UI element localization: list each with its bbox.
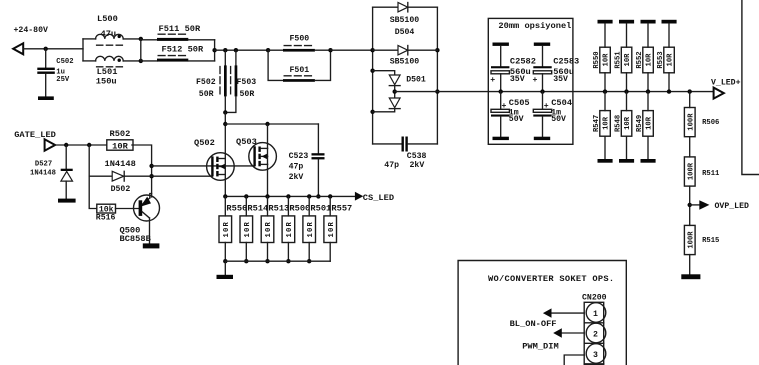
- svg-text:F511 50R: F511 50R: [159, 24, 201, 34]
- wire to Q502 gate: [152, 175, 213, 177]
- svg-text:D527: D527: [35, 161, 52, 169]
- wire output bus V_LED: [395, 91, 714, 93]
- svg-text:R549: R549: [636, 115, 644, 132]
- node zener midpoint: [393, 89, 397, 93]
- wire OVP stub: [690, 204, 700, 206]
- svg-text:BL_ON-OFF: BL_ON-OFF: [510, 319, 557, 329]
- capacitor C2583 560u 35V: [533, 66, 551, 68]
- svg-text:OVP_LED: OVP_LED: [715, 202, 749, 211]
- node clamp right output: [435, 89, 439, 93]
- svg-text:R550: R550: [593, 51, 601, 68]
- wire choke left vertical: [82, 39, 84, 61]
- svg-text:R556: R556: [226, 203, 247, 213]
- terminal bar cap column 1 top: [493, 43, 509, 46]
- svg-text:R552: R552: [636, 51, 644, 68]
- node clamp left zener bottom: [370, 110, 374, 114]
- wire gate input: [55, 144, 107, 146]
- svg-text:10R: 10R: [646, 53, 654, 67]
- wire source bus: [225, 195, 355, 197]
- svg-text:C538: C538: [407, 152, 427, 161]
- svg-text:3: 3: [593, 351, 598, 360]
- resistor R547 10R: [604, 92, 606, 111]
- svg-text:1N4148: 1N4148: [105, 159, 136, 169]
- svg-text:C2582: C2582: [510, 56, 536, 66]
- wire input bus: [23, 48, 83, 50]
- ground Q500: [143, 243, 160, 248]
- svg-text:BC858B: BC858B: [120, 234, 152, 244]
- svg-text:10R: 10R: [328, 221, 336, 238]
- pin 3: [586, 344, 606, 364]
- svg-text:50V: 50V: [551, 115, 566, 124]
- resistor R513 10R: [265, 194, 269, 198]
- svg-text:V_LED+: V_LED+: [711, 78, 741, 87]
- node R506 bus tap: [688, 89, 692, 93]
- resistor R552 10R: [641, 20, 656, 24]
- port arrow CS_LED (filled, pointing right): [355, 192, 363, 201]
- svg-text:10R: 10R: [667, 53, 675, 67]
- svg-text:L500: L500: [97, 14, 118, 24]
- node gate node lower: [149, 174, 153, 178]
- node D527 tap: [64, 143, 68, 147]
- svg-text:R501: R501: [310, 203, 331, 213]
- svg-text:R513: R513: [268, 203, 289, 213]
- svg-text:PWM_DIM: PWM_DIM: [522, 342, 559, 352]
- svg-text:R515: R515: [702, 237, 719, 245]
- svg-text:F502: F502: [196, 78, 216, 87]
- node F502 top: [223, 48, 227, 52]
- node C523 source bus: [316, 194, 320, 198]
- svg-text:+24-80V: +24-80V: [14, 26, 48, 35]
- terminal bar cap column 1 bottom: [493, 137, 509, 140]
- resistor R500 10R: [286, 194, 290, 198]
- svg-text:47p: 47p: [384, 161, 399, 170]
- wire choke output vertical: [140, 39, 142, 61]
- node drain bus left: [223, 122, 227, 126]
- resistor R501 10R: [307, 194, 311, 198]
- terminal bar cap column 2 bottom: [534, 137, 550, 140]
- svg-text:SB5100: SB5100: [390, 57, 420, 66]
- svg-text:F503: F503: [237, 78, 257, 87]
- resistor R550 10R: [598, 20, 613, 24]
- svg-text:2kV: 2kV: [410, 160, 425, 170]
- svg-text:F500: F500: [290, 35, 310, 44]
- wire off-page block border right: [742, 0, 759, 175]
- wire R502 to gate node: [132, 145, 152, 197]
- svg-text:R516: R516: [96, 214, 116, 223]
- svg-text:R557: R557: [331, 203, 352, 213]
- svg-text:35V: 35V: [510, 75, 525, 84]
- resistor R511 100R: [684, 157, 695, 186]
- svg-text:L501: L501: [97, 67, 118, 77]
- svg-text:D501: D501: [406, 75, 426, 84]
- pin 2: [586, 323, 606, 343]
- svg-text:R502: R502: [110, 129, 131, 139]
- node choke right top: [139, 37, 143, 41]
- capacitor C502: [37, 68, 55, 70]
- resistor R557 10R: [328, 194, 332, 198]
- wire bus to diode block: [331, 49, 373, 51]
- svg-text:25V: 25V: [56, 76, 70, 84]
- ground R515: [681, 274, 700, 279]
- svg-text:2kV: 2kV: [289, 172, 304, 182]
- wire Q502 drain: [224, 112, 226, 158]
- node F500 left: [266, 48, 270, 52]
- svg-text:SB5100: SB5100: [390, 16, 420, 25]
- wire source resistor ground bus: [225, 260, 330, 262]
- svg-text:CN200: CN200: [582, 294, 607, 303]
- box 20mm opsiyonel: [488, 18, 573, 144]
- node cap col2 bus: [540, 89, 544, 93]
- port arrow PWM_DIM (filled, pointing left): [553, 328, 562, 337]
- svg-text:10R: 10R: [307, 221, 315, 238]
- svg-text:50R: 50R: [240, 90, 255, 99]
- svg-text:10R: 10R: [265, 221, 273, 238]
- node F500/F501 right join: [328, 48, 332, 52]
- box WO/CONVERTER SOKET OPS.: [458, 261, 626, 365]
- node ferrite bottom join: [223, 110, 227, 114]
- node choke right bottom: [139, 59, 143, 63]
- svg-text:R514: R514: [247, 203, 268, 213]
- svg-text:35V: 35V: [553, 75, 568, 84]
- svg-text:GATE_LED: GATE_LED: [14, 130, 56, 140]
- port arrow BL_ON-OFF (filled, pointing left): [543, 308, 552, 317]
- svg-text:1: 1: [593, 310, 598, 319]
- svg-text:150u: 150u: [96, 76, 117, 86]
- port arrow GATE_LED (pointing right): [45, 139, 56, 150]
- ground D527: [58, 199, 76, 203]
- pin 1: [586, 303, 606, 323]
- wire Q503 source: [267, 164, 269, 196]
- svg-text:+: +: [533, 76, 538, 85]
- svg-text:10R: 10R: [646, 116, 654, 130]
- svg-text:10R: 10R: [624, 53, 632, 67]
- resistor R548 10R: [626, 92, 628, 111]
- svg-text:2: 2: [593, 330, 598, 339]
- node bus tap: [212, 48, 216, 52]
- node clamp right bus: [435, 48, 439, 52]
- wire ground stub: [224, 261, 226, 275]
- resistor R515 100R: [684, 225, 695, 254]
- svg-text:C523: C523: [289, 152, 309, 161]
- wire main bus segment: [215, 49, 269, 51]
- node cap col1 bus: [499, 89, 503, 93]
- svg-text:47p: 47p: [289, 163, 304, 172]
- svg-text:D502: D502: [111, 185, 131, 194]
- resistor R556 10R: [223, 194, 227, 198]
- svg-text:R506: R506: [702, 119, 719, 127]
- wire cap col1: [500, 46, 502, 66]
- svg-text:10R: 10R: [244, 221, 252, 238]
- svg-text:50V: 50V: [509, 115, 524, 124]
- ground source resistors: [217, 275, 234, 279]
- svg-text:Q502: Q502: [194, 138, 215, 148]
- wire to Q503 gate: [152, 165, 255, 167]
- svg-text:10R: 10R: [603, 116, 611, 130]
- resistor R506 100R: [689, 92, 691, 108]
- resistor R553 10R: [662, 20, 677, 24]
- wire drain bus: [225, 123, 318, 125]
- svg-text:C502: C502: [56, 58, 73, 66]
- node F503 top: [234, 48, 238, 52]
- wire F511/F512 join vertical: [214, 40, 216, 61]
- svg-text:+: +: [490, 76, 495, 85]
- svg-text:10R: 10R: [286, 221, 294, 238]
- wire C502 top lead: [45, 49, 47, 68]
- svg-text:F512 50R: F512 50R: [162, 45, 204, 55]
- wire Q503 drain: [267, 124, 269, 148]
- svg-text:1N4148: 1N4148: [30, 169, 56, 177]
- svg-text:R553: R553: [657, 51, 665, 68]
- node clamp left D501 tap: [370, 69, 374, 73]
- terminal bar cap column 2 top: [534, 43, 550, 46]
- svg-text:D504: D504: [395, 28, 415, 37]
- svg-text:10R: 10R: [223, 221, 231, 238]
- svg-text:100R: 100R: [687, 113, 695, 131]
- svg-text:10R: 10R: [624, 116, 632, 130]
- svg-text:10R: 10R: [112, 141, 128, 151]
- svg-text:F501: F501: [290, 66, 310, 75]
- svg-text:R551: R551: [615, 51, 623, 69]
- resistor R551 10R: [619, 20, 634, 24]
- resistor R549 10R: [647, 92, 649, 111]
- node clamp left bus: [370, 48, 374, 52]
- wire clamp block right vertical: [436, 7, 438, 144]
- node gate node upper: [149, 164, 153, 168]
- wire clamp block left vertical: [372, 7, 374, 144]
- svg-text:R511: R511: [702, 170, 720, 178]
- svg-text:C2583: C2583: [553, 56, 579, 66]
- port arrow OVP_LED (filled, pointing right): [699, 200, 709, 210]
- ground C502: [38, 96, 54, 100]
- port arrow V_LED+ (open, pointing right): [714, 88, 724, 99]
- svg-text:R500: R500: [289, 203, 310, 213]
- port arrow +24-80V (open, pointing left): [13, 43, 23, 54]
- svg-text:20mm opsiyonel: 20mm opsiyonel: [498, 21, 571, 31]
- svg-text:WO/CONVERTER SOKET OPS.: WO/CONVERTER SOKET OPS.: [488, 274, 614, 284]
- node Q503 drain tap: [265, 122, 269, 126]
- wire cap col2: [542, 46, 544, 66]
- svg-text:10R: 10R: [603, 53, 611, 67]
- svg-text:R548: R548: [615, 115, 623, 132]
- svg-text:100R: 100R: [687, 231, 695, 249]
- svg-text:CS_LED: CS_LED: [363, 193, 394, 203]
- svg-text:C505: C505: [509, 98, 530, 108]
- svg-text:R547: R547: [593, 115, 601, 132]
- svg-text:C504: C504: [551, 98, 572, 108]
- wire C502 bottom lead: [45, 74, 47, 97]
- node junction C502 tap: [44, 47, 48, 51]
- capacitor C505 1m 50V: [500, 92, 502, 110]
- resistor R514 10R: [244, 194, 248, 198]
- capacitor C504 1m 50V: [542, 92, 544, 110]
- capacitor C2582 560u 35V: [491, 66, 509, 68]
- svg-text:10k: 10k: [99, 205, 114, 215]
- wire Q502 source: [224, 175, 226, 197]
- node D502/R516 tap: [87, 143, 91, 147]
- node OVP_LED tap: [688, 203, 692, 207]
- wire pin 3: [564, 355, 584, 365]
- svg-text:50R: 50R: [199, 90, 214, 99]
- svg-text:100R: 100R: [687, 162, 695, 180]
